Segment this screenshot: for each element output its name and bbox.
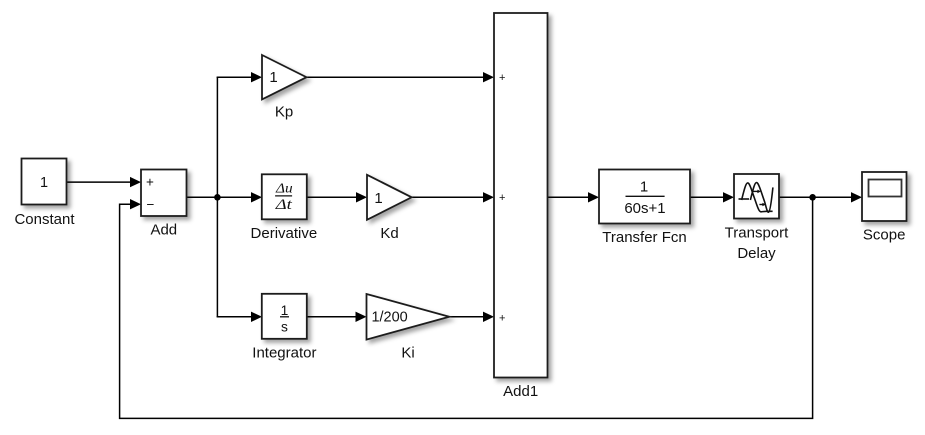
svg-text:Integrator: Integrator [252, 345, 316, 362]
gain Ki [367, 294, 450, 340]
svg-text:Delay: Delay [737, 245, 776, 262]
svg-text:Δu: Δu [275, 181, 293, 196]
wire Transfer Fcn to Transport Delay [690, 196, 724, 198]
wire feedback loop [120, 197, 813, 418]
svg-text:+: + [499, 312, 505, 324]
wire Add to Derivative [187, 196, 253, 198]
svg-text:Transport: Transport [725, 224, 789, 241]
scope screen icon [869, 180, 902, 197]
wire Add1 to Transfer Fcn [548, 196, 590, 198]
gain Kp [262, 55, 307, 99]
integrator block [262, 294, 307, 339]
node junction dot feedback [809, 194, 816, 201]
svg-text:+: + [499, 192, 505, 204]
wire branch to Kp [217, 76, 252, 78]
svg-text:60s+1: 60s+1 [624, 200, 665, 217]
svg-text:1/200: 1/200 [371, 310, 407, 326]
svg-text:Kp: Kp [275, 104, 293, 121]
svg-text:Ki: Ki [401, 345, 414, 362]
wire Kd to Add1 [412, 196, 484, 198]
svg-text:Δt: Δt [275, 196, 294, 213]
gain Kd [367, 175, 412, 220]
constant block [22, 159, 67, 205]
svg-text:Scope: Scope [863, 227, 906, 244]
wire Kp to Add1 [307, 76, 485, 78]
scope block [862, 172, 907, 221]
svg-text:1: 1 [269, 69, 277, 86]
transfer fcn block [599, 170, 690, 224]
svg-text:Add: Add [150, 222, 177, 239]
svg-text:1: 1 [640, 178, 648, 195]
wire Transport Delay to Scope [779, 196, 852, 198]
svg-text:Transfer Fcn: Transfer Fcn [602, 229, 686, 246]
svg-text:Kd: Kd [380, 225, 398, 242]
wire Constant to Add [67, 181, 132, 183]
svg-text:Add1: Add1 [503, 383, 538, 400]
derivative block [262, 174, 307, 219]
svg-text:1: 1 [374, 190, 382, 207]
svg-text:Constant: Constant [14, 211, 75, 228]
wire Ki to Add1 [449, 316, 484, 318]
svg-text:s: s [281, 320, 288, 335]
svg-text:+: + [146, 175, 154, 190]
svg-text:−: − [147, 197, 155, 212]
wire Derivative to Kd [307, 196, 357, 198]
svg-text:1: 1 [40, 175, 48, 191]
svg-text:1: 1 [281, 303, 289, 318]
transport delay icon [739, 183, 773, 213]
transport delay block [734, 174, 779, 219]
sum block Add1 [494, 13, 548, 378]
svg-text:+: + [499, 72, 505, 84]
sum block Add [141, 170, 187, 217]
node junction dot branch [214, 194, 221, 201]
svg-text:Derivative: Derivative [251, 225, 318, 242]
wire branch to Integrator [217, 316, 252, 318]
wire Integrator to Ki [307, 316, 357, 318]
wire branch vertical [216, 77, 218, 317]
